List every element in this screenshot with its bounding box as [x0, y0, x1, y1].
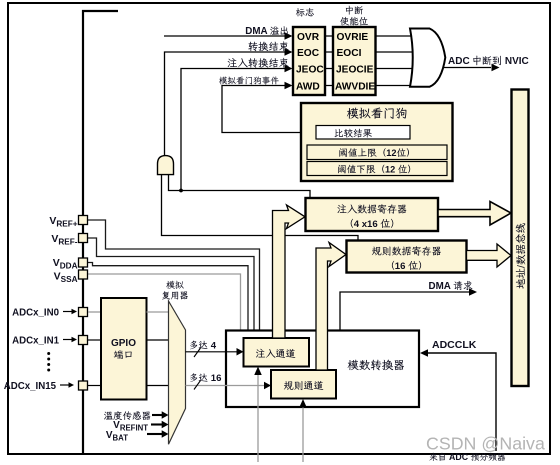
label 中断使能位: [340, 6, 368, 26]
label 注入转换结束: [228, 58, 289, 68]
wire ADC interrupt to NVIC: [444, 64, 500, 71]
wire VDDA to converter: [88, 263, 248, 332]
AND gate U2 (points up): [158, 156, 174, 175]
wire AND gate right input from injected data register top: [169, 175, 311, 198]
wire IN1 pad to GPIO: [88, 339, 101, 341]
wire VREF+ to converter: [88, 220, 260, 331]
bus block arrow regular register to data bus: [467, 244, 512, 267]
ADCCLK wire from prescaler: [420, 349, 496, 451]
ellipsis dots: [47, 352, 50, 372]
flag register box OVR/EOC/JEOC/AWD: [293, 27, 325, 95]
left rail with top stub: [83, 11, 118, 453]
svg-text:DMA: DMA: [429, 281, 451, 292]
svg-text:16: 16: [395, 261, 406, 272]
pad VREF-: [51, 233, 87, 247]
svg-text:AWD: AWD: [296, 82, 320, 93]
compare result box 比较结果: [316, 126, 410, 140]
svg-text:ADC: ADC: [449, 452, 469, 462]
label DMA 请求: [429, 281, 473, 292]
label 多达 16: [190, 373, 221, 384]
higher threshold box 阈值上限 (12位): [307, 145, 447, 160]
label ADC 中断到 NVIC: [448, 56, 529, 67]
wire VSSA to converter (gray): [88, 274, 241, 331]
svg-text:OVRIE: OVRIE: [337, 32, 369, 43]
lower threshold box 阈值下限 (12 位): [307, 162, 447, 176]
label 来自 ADC 预分频器: [429, 452, 505, 462]
svg-text:ADCx_IN1: ADCx_IN1: [12, 336, 59, 347]
junction node JEOC line joins injected wire: [179, 189, 183, 193]
temp sensor input 温度传感器: [104, 411, 169, 420]
wire up-to-4 injected channels from mux: [186, 348, 244, 357]
svg-text:JEOC: JEOC: [296, 65, 324, 76]
label 标志: [296, 8, 314, 17]
svg-text:EOCI: EOCI: [337, 48, 362, 59]
VBAT input: [106, 430, 169, 443]
wire DMA overrun to OVR flag: [164, 32, 293, 39]
svg-text:NVIC: NVIC: [505, 56, 529, 67]
analog to digital converter box 模数转换器: [226, 331, 419, 408]
svg-text:12: 12: [386, 148, 396, 158]
regular trigger wire from bottom (gray): [299, 399, 307, 462]
svg-text:16: 16: [211, 373, 222, 384]
regular data register box 规则数据寄存器 (16 位): [347, 241, 467, 273]
svg-text:JEOCIE: JEOCIE: [336, 65, 374, 76]
wires GPIO to analog mux: [147, 311, 169, 313]
wire conversion-end (EOC) from AND gate to EOC flag: [165, 48, 293, 155]
bus block arrow injected channels to injected data registers: [273, 205, 306, 338]
svg-text:ADCx_IN0: ADCx_IN0: [12, 308, 59, 319]
label DMA 溢出: [245, 26, 287, 37]
svg-text:12: 12: [385, 165, 395, 175]
svg-text:GPIO: GPIO: [111, 338, 136, 349]
label 多达 4: [190, 340, 217, 351]
pad ADCx_IN15: [4, 381, 88, 392]
OR gate U1: [410, 29, 445, 87]
svg-text:OVR: OVR: [297, 32, 320, 43]
pad ADCx_IN0: [12, 308, 87, 319]
bus block arrow injected registers to data bus: [438, 202, 511, 226]
GPIO ports box: [101, 298, 147, 400]
svg-text:ADCCLK: ADCCLK: [432, 339, 477, 351]
svg-text:ADCx_IN15: ADCx_IN15: [4, 381, 57, 392]
analog watchdog box 模拟看门狗: [301, 103, 453, 181]
analog multiplexer trapezoid: [169, 301, 186, 444]
DMA request wire: [340, 288, 477, 331]
label 转换结束: [248, 41, 288, 51]
wire injected-conversion-end (JEOC): [181, 65, 293, 191]
svg-text:ADC: ADC: [448, 56, 470, 67]
wire IN0 pad to GPIO (gray): [88, 311, 101, 313]
injected data registers box 注入数据寄存器 (4 x16 位): [306, 198, 439, 231]
VREFINT input: [113, 420, 168, 433]
pad VREF+: [49, 215, 87, 229]
wire IN15 pad to GPIO: [88, 385, 101, 387]
svg-text:DMA: DMA: [245, 26, 267, 37]
wire up-to-16 regular channels from mux (gray): [186, 381, 272, 390]
wire analog-watchdog event (AWD) from compare result: [222, 82, 316, 133]
label 模拟看门狗事件: [219, 76, 279, 84]
injected channels box 注入通道: [244, 338, 310, 367]
svg-text:AWVDIE: AWVDIE: [335, 82, 375, 93]
pad VSSA: [54, 270, 88, 284]
wire VREF- to converter: [88, 238, 254, 331]
injected trigger wire from bottom (gray): [254, 367, 262, 463]
svg-text:EOC: EOC: [297, 48, 320, 59]
label 模拟复用器: [162, 281, 188, 300]
svg-text:4: 4: [211, 340, 217, 351]
pad ADCx_IN1: [12, 336, 87, 347]
wires flag box to enable box: [325, 36, 333, 86]
regular channels box 规则通道: [271, 370, 336, 399]
svg-text:CSDN @Naiva: CSDN @Naiva: [426, 434, 545, 454]
wire AND gate left input from regular data register top: [162, 175, 359, 240]
address/data bus bar 地址/数据总线: [512, 90, 529, 387]
svg-text:/: /: [515, 265, 527, 268]
interrupt enable box OVRIE/EOCI/JEOCIE/AWVDIE: [333, 27, 376, 95]
svg-text:4 x16: 4 x16: [354, 219, 378, 230]
bus block arrow regular channels to regular data register: [316, 243, 346, 371]
pad VDDA: [53, 257, 88, 271]
wires enable box to OR gate: [376, 36, 413, 86]
